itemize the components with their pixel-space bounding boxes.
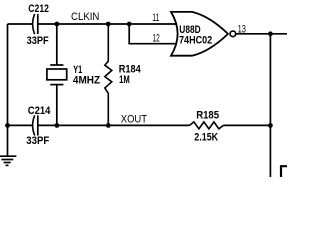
svg-text:1M: 1M <box>119 74 130 86</box>
wire output net to right edge <box>236 33 287 35</box>
capacitor C212 <box>27 3 49 47</box>
resistor R184 <box>105 24 142 125</box>
resistor R185 <box>190 110 224 144</box>
svg-text:4MHZ: 4MHZ <box>73 75 100 87</box>
svg-text:74HC02: 74HC02 <box>179 35 212 47</box>
wire CLKIN net: rail to C212 <box>8 23 33 25</box>
crystal Y1 <box>47 24 100 125</box>
wire output net vertical rail <box>269 34 271 177</box>
svg-text:12: 12 <box>153 32 160 44</box>
NOR gate U88D body <box>171 12 228 56</box>
junction XOUT / R184 <box>106 123 111 128</box>
wire XOUT net: rail to C214 <box>8 124 33 126</box>
junction output net bottom <box>268 123 273 128</box>
junction CLKIN / Y1 <box>55 22 60 27</box>
junction CLKIN / R184 <box>106 22 111 27</box>
ground <box>0 156 16 165</box>
junction XOUT / Y1 <box>55 123 60 128</box>
svg-text:C212: C212 <box>28 3 49 15</box>
svg-text:R185: R185 <box>196 110 219 122</box>
svg-text:11: 11 <box>152 12 159 24</box>
junction output net top <box>268 31 273 36</box>
svg-text:2.15K: 2.15K <box>194 131 218 143</box>
junction CLKIN / pin12 branch <box>127 22 132 27</box>
svg-text:C214: C214 <box>28 105 51 117</box>
svg-text:CLKIN: CLKIN <box>71 11 99 23</box>
output bubble <box>230 31 236 37</box>
svg-text:XOUT: XOUT <box>121 114 147 126</box>
wire R185 to output rail <box>223 124 270 126</box>
svg-text:33PF: 33PF <box>27 35 49 47</box>
ground rail (left vertical wire) <box>7 24 9 156</box>
wire pin 12 branch <box>129 24 176 44</box>
capacitor C214 <box>26 105 51 147</box>
junction XOUT / ground rail <box>5 123 10 128</box>
wire CLKIN net: C212 to gate pin 11 <box>38 23 177 25</box>
partial component box bottom-right <box>281 166 288 178</box>
svg-text:33PF: 33PF <box>26 135 49 147</box>
wire XOUT net: C214 to R185 <box>38 124 190 126</box>
